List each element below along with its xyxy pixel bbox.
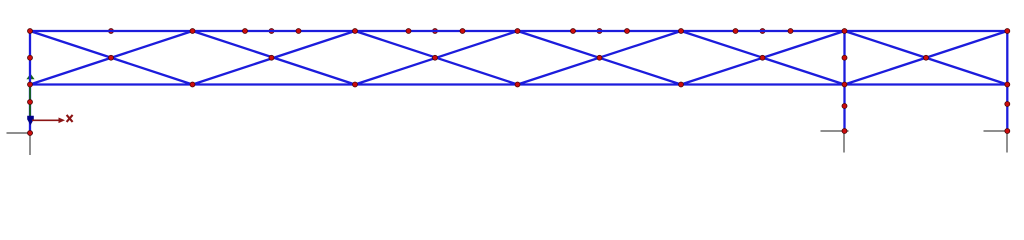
axis Z navy arrowhead blob at origin [27, 116, 34, 125]
node crossing X4 [597, 55, 602, 60]
member diagonal D6a [845, 31, 1008, 85]
node top p4-b [625, 29, 630, 34]
node left support [28, 131, 33, 136]
node right support [1005, 129, 1010, 134]
node middle column mid [842, 55, 847, 60]
node top P4 [679, 29, 684, 34]
member diagonal D3b [355, 31, 518, 85]
node top p3-b [460, 29, 465, 34]
member right column [1006, 31, 1008, 131]
node bottom P2 [353, 82, 358, 87]
node crossing X3 [433, 55, 438, 60]
node top p4-a [571, 29, 576, 34]
node crossing X6 [924, 55, 929, 60]
node bottom P1 [190, 82, 195, 87]
support left (half-cross) [7, 133, 34, 155]
node crossing X1 [109, 55, 114, 60]
node top P3 [515, 29, 520, 34]
axis Y green arrowhead (under members, wings show beside column) [26, 74, 34, 80]
node left column lower [28, 100, 33, 105]
node middle support [842, 129, 847, 134]
member diagonal D4a [518, 31, 682, 85]
node top-right corner [1005, 29, 1010, 34]
node bottom P5 [842, 82, 847, 87]
node top p2-a [243, 29, 248, 34]
node top P5 [842, 29, 847, 34]
node left column mid [28, 55, 33, 60]
node crossing X5 [760, 55, 765, 60]
node top p2-b [296, 29, 301, 34]
node top P1 [190, 29, 195, 34]
node top p3-a [406, 29, 411, 34]
member diagonal D1a [30, 31, 193, 85]
axis Y green shaft (over column, below chord node) [29, 85, 31, 117]
node top p5-b [788, 29, 793, 34]
node bottom P4 [679, 82, 684, 87]
node bottom-left [28, 82, 33, 87]
member top chord [30, 30, 1007, 32]
node N-top-mid-3 (under chord) [433, 29, 438, 34]
node top P2 [353, 29, 358, 34]
member diagonal D3a [355, 31, 518, 85]
member left column [29, 31, 31, 133]
node N-top-mid-5 (under chord) [760, 29, 765, 34]
node N-top-mid-2 (under chord) [269, 29, 274, 34]
node right column lower [1005, 102, 1010, 107]
member diagonal D5a [681, 31, 845, 85]
node N-top-mid-4 (under chord) [597, 29, 602, 34]
member diagonal D2a [193, 31, 356, 85]
node bottom-right [1005, 82, 1010, 87]
member diagonal D5b [681, 31, 845, 85]
support middle (half-cross) [821, 131, 849, 153]
member diagonal D6b [845, 31, 1008, 85]
node N-top-mid-1 (under chord) [109, 29, 114, 34]
member diagonal D4b [518, 31, 682, 85]
member diagonal D1b [30, 31, 193, 85]
node crossing X2 [269, 55, 274, 60]
axis label X (vector glyph) [67, 115, 73, 122]
member bottom chord [30, 83, 1007, 85]
node top p5-a [733, 29, 738, 34]
member middle column [843, 31, 845, 131]
member diagonal D2b [193, 31, 356, 85]
node bottom P3 [515, 82, 520, 87]
axis X maroon arrow [32, 118, 65, 124]
node middle column lower [842, 104, 847, 109]
support right (half-cross) [984, 131, 1010, 153]
node top-left corner [28, 29, 33, 34]
